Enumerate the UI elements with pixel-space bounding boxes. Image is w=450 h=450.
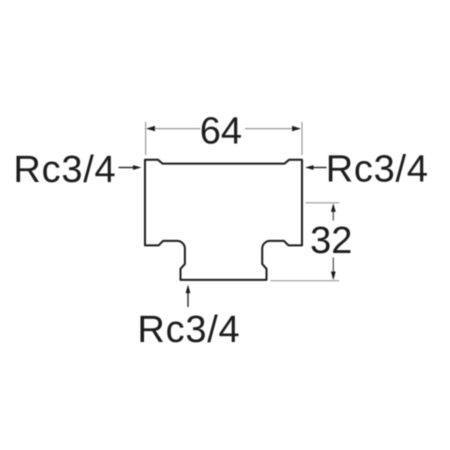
dimension 64: left extension line: [145, 122, 147, 155]
leader arrow left head: [133, 165, 142, 170]
dimension 32: lower shaft: [332, 258, 334, 274]
dimension 64: dimension line left segment: [147, 128, 201, 130]
svg-text:Rc3/4: Rc3/4: [326, 149, 429, 191]
leader arrow bottom head: [186, 285, 191, 294]
dimension 32: bottom extension line: [270, 280, 339, 282]
leader arrow right shaft: [313, 167, 327, 169]
dimension 32: down arrowhead: [331, 272, 336, 281]
dimension 32: top extension line: [306, 202, 340, 204]
tee fitting body outline: [145, 160, 302, 280]
svg-text:64: 64: [200, 111, 242, 153]
leader arrow right head: [305, 165, 314, 170]
dimension 64: right arrowhead: [292, 126, 301, 131]
dimension 64: right extension line: [301, 122, 303, 155]
dimension 64: dimension line right segment: [245, 128, 300, 130]
dimension 32: up arrowhead: [331, 203, 336, 212]
leader arrow left shaft: [119, 167, 135, 169]
svg-text:Rc3/4: Rc3/4: [13, 149, 116, 191]
dimension 64: left arrowhead: [146, 126, 155, 131]
svg-text:Rc3/4: Rc3/4: [137, 309, 240, 351]
leader arrow bottom shaft: [187, 293, 189, 308]
svg-text:32: 32: [310, 220, 352, 262]
dimension 32: upper shaft: [332, 211, 334, 221]
